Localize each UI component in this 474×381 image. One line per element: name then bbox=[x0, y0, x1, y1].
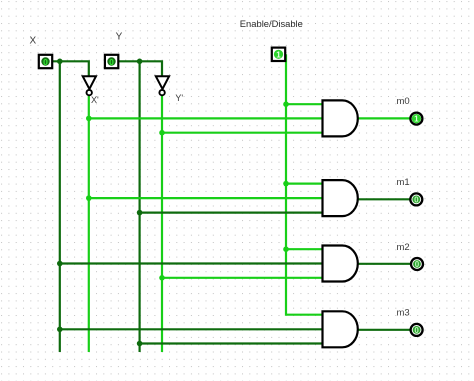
svg-text:X': X' bbox=[91, 95, 99, 105]
wire m0 Y' input bbox=[162, 132, 323, 134]
wire m2 Y' input bbox=[162, 277, 323, 279]
wire Y pin to inverter bbox=[119, 61, 163, 76]
svg-text:0: 0 bbox=[109, 57, 114, 67]
node m3 X junction bbox=[57, 327, 63, 333]
svg-text:X: X bbox=[30, 36, 37, 47]
wire m0 enable input bbox=[286, 103, 323, 105]
wire X pin to inverter bbox=[53, 61, 89, 76]
wire Enable rail bbox=[286, 54, 323, 315]
wire m0 X' input bbox=[89, 117, 323, 119]
svg-text:m1: m1 bbox=[397, 177, 410, 188]
node m0 Y' junction bbox=[159, 130, 165, 136]
wire m2 X input bbox=[60, 262, 323, 264]
wire m1 output bbox=[358, 198, 410, 200]
svg-text:0: 0 bbox=[414, 326, 419, 335]
inverter Y' bbox=[156, 76, 169, 95]
wire m3 output bbox=[358, 329, 410, 331]
output pin m0 bbox=[410, 113, 422, 125]
svg-text:m0: m0 bbox=[397, 96, 410, 107]
output pin m1 bbox=[410, 193, 422, 205]
input pin Y bbox=[105, 55, 118, 68]
and gate U3 m2 bbox=[323, 246, 358, 282]
wire m2 output bbox=[358, 263, 410, 265]
wire m3 X input bbox=[60, 328, 323, 330]
input pin Enable bbox=[272, 48, 285, 61]
svg-text:0: 0 bbox=[414, 195, 419, 204]
svg-text:m3: m3 bbox=[397, 308, 410, 319]
node m0 enable junction bbox=[283, 101, 289, 107]
node m0 X' junction bbox=[86, 116, 92, 122]
wire m2 enable input bbox=[286, 248, 323, 250]
node m1 Y junction bbox=[137, 210, 143, 216]
svg-text:0: 0 bbox=[415, 260, 420, 269]
wire Y' rail bbox=[161, 96, 163, 352]
node Y junction bbox=[137, 59, 143, 65]
node m1 enable junction bbox=[283, 181, 289, 187]
inverter X' bbox=[83, 76, 96, 95]
node m2 X junction bbox=[57, 261, 63, 267]
node X junction bbox=[57, 59, 63, 65]
svg-text:0: 0 bbox=[43, 57, 48, 67]
output pin m2 bbox=[411, 258, 423, 270]
node m2 Y' junction bbox=[159, 275, 165, 281]
wire X' rail bbox=[88, 96, 90, 352]
and gate U2 m1 bbox=[323, 180, 358, 216]
svg-text:Y': Y' bbox=[175, 93, 183, 103]
wire X rail bbox=[59, 61, 61, 352]
node m1 X' junction bbox=[86, 195, 92, 201]
svg-text:Enable/Disable: Enable/Disable bbox=[240, 18, 303, 29]
node m2 enable junction bbox=[283, 246, 289, 252]
wire Y rail bbox=[139, 61, 141, 352]
wire m1 X' input bbox=[89, 197, 323, 199]
svg-text:Y: Y bbox=[116, 32, 123, 43]
svg-text:m2: m2 bbox=[397, 242, 410, 253]
wire m1 Y input bbox=[140, 212, 323, 214]
output pin m3 bbox=[411, 324, 423, 336]
and gate U1 m0 bbox=[323, 100, 358, 136]
svg-text:1: 1 bbox=[414, 115, 419, 124]
wire m1 enable input bbox=[286, 183, 323, 185]
and gate U4 m3 bbox=[323, 311, 358, 347]
svg-text:1: 1 bbox=[276, 50, 281, 59]
node m3 Y junction bbox=[137, 341, 143, 347]
wire m3 Y input bbox=[140, 342, 323, 344]
input pin X bbox=[39, 55, 52, 68]
wire m0 output bbox=[358, 117, 410, 119]
